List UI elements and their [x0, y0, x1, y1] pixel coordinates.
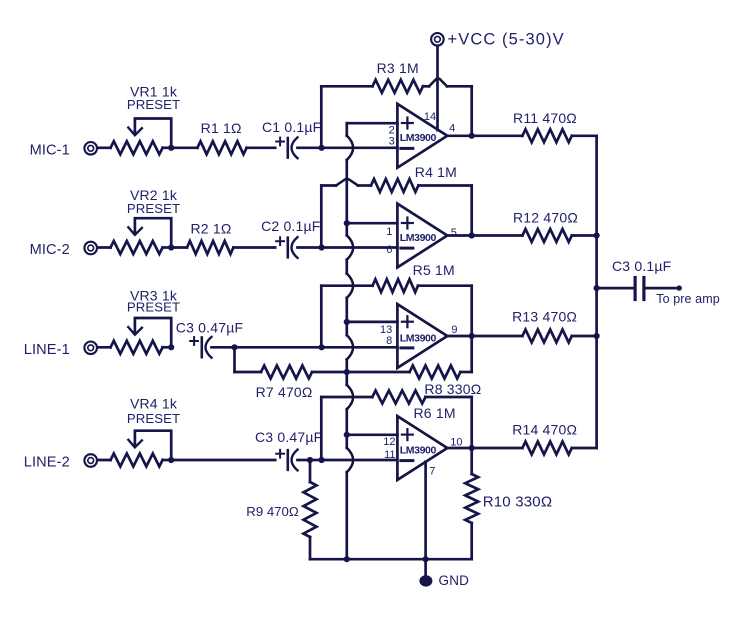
resistor R3 1M — [321, 60, 471, 146]
op-amp U1a LM3900 #1 — [389, 104, 456, 168]
wire — [597, 287, 636, 290]
svg-text:R13 470Ω: R13 470Ω — [512, 309, 577, 325]
connector J3 LINE-1 jack — [84, 342, 97, 355]
svg-text:C3 0.47µF: C3 0.47µF — [176, 319, 243, 335]
svg-text:R5 1M: R5 1M — [413, 262, 455, 278]
junction node R9 tap — [307, 457, 313, 463]
wire ground bus — [310, 558, 472, 561]
svg-text:To pre amp: To pre amp — [656, 292, 720, 306]
wire — [298, 146, 322, 149]
wire — [233, 246, 275, 249]
svg-text:PRESET: PRESET — [127, 411, 180, 426]
svg-text:12: 12 — [383, 436, 395, 448]
capacitor C3 0.47µF (LINE-2) — [255, 429, 322, 470]
potentiometer VR3 1k PRESET — [111, 288, 181, 354]
svg-text:C3 0.1µF: C3 0.1µF — [612, 258, 671, 274]
svg-text:R8 330Ω: R8 330Ω — [424, 381, 481, 397]
wire rail crossover hop — [347, 385, 353, 409]
svg-text:LINE-1: LINE-1 — [24, 342, 70, 358]
svg-text:R4 1M: R4 1M — [415, 164, 457, 180]
resistor R10 330Ω — [465, 448, 552, 559]
wire rail crossover hop — [347, 335, 353, 359]
connector J1 MIC-1 jack — [84, 142, 97, 155]
junction op3 output node — [469, 333, 475, 339]
wire — [322, 246, 398, 249]
capacitor C2 0.1µF — [261, 218, 320, 258]
junction pin7 ground — [423, 556, 429, 562]
svg-text:GND: GND — [439, 573, 470, 588]
junction bus output cap — [594, 285, 600, 291]
wire pin 7 to ground — [424, 462, 427, 560]
junction op4 output node — [469, 445, 475, 451]
svg-text:LM3900: LM3900 — [400, 332, 437, 344]
wire — [322, 346, 398, 349]
svg-text:LM3900: LM3900 — [400, 444, 437, 456]
resistor R13 470Ω — [512, 309, 597, 343]
svg-text:8: 8 — [386, 335, 392, 347]
op-amp U1b LM3900 #2 — [386, 204, 457, 268]
svg-text:C1 0.1µF: C1 0.1µF — [262, 119, 321, 135]
wire op4 output — [447, 447, 522, 450]
capacitor C1 0.1µF — [262, 119, 321, 158]
svg-text:11: 11 — [384, 449, 395, 461]
node To pre amp terminal — [656, 285, 720, 306]
junction bus R13 — [594, 333, 600, 339]
wire non-inverting bias rail — [345, 123, 348, 559]
wire — [298, 459, 311, 462]
svg-text:PRESET: PRESET — [127, 201, 180, 216]
wire — [322, 459, 398, 462]
svg-text:+VCC (5-30)V: +VCC (5-30)V — [448, 31, 565, 49]
resistor R1 1Ω — [171, 120, 246, 154]
junction VR4 wiper node — [168, 457, 174, 463]
wire pin 14 to VCC — [436, 46, 439, 130]
wire — [644, 287, 679, 290]
svg-text:R1 1Ω: R1 1Ω — [201, 120, 242, 136]
svg-text:MIC-1: MIC-1 — [30, 142, 70, 158]
resistor R9 470Ω — [246, 460, 316, 559]
svg-text:13: 13 — [380, 324, 392, 336]
svg-text:R14 470Ω: R14 470Ω — [512, 421, 577, 437]
junction op1 output node — [469, 133, 475, 139]
svg-text:R6 1M: R6 1M — [413, 405, 455, 421]
junction rail to ground bus — [344, 556, 350, 562]
junction feedback node ch3 — [319, 344, 325, 350]
resistor R12 470Ω — [513, 209, 597, 242]
wire rail crossover hop — [347, 274, 353, 298]
svg-text:R2 1Ω: R2 1Ω — [190, 220, 231, 236]
svg-text:R3 1M: R3 1M — [377, 60, 419, 76]
potentiometer VR4 1k PRESET — [111, 396, 181, 467]
resistor R11 470Ω — [513, 110, 597, 142]
svg-text:PRESET: PRESET — [127, 97, 180, 112]
wire op1 output — [447, 134, 522, 137]
connector J4 LINE-2 jack — [84, 454, 97, 467]
svg-text:VR4 1k: VR4 1k — [130, 396, 178, 412]
svg-text:R7 470Ω: R7 470Ω — [256, 384, 313, 400]
svg-text:6: 6 — [386, 244, 392, 256]
junction VR1 wiper node — [168, 145, 174, 151]
svg-text:LM3900: LM3900 — [400, 232, 437, 244]
wire — [97, 346, 110, 349]
junction op2 output node — [469, 232, 475, 238]
junction feedback node ch1 — [319, 145, 325, 151]
wire + input op3 — [347, 321, 398, 324]
capacitor C3 0.47µF (LINE-1) — [176, 319, 243, 357]
junction VR3 wiper node — [168, 344, 174, 350]
svg-text:9: 9 — [451, 324, 457, 336]
wire — [212, 346, 235, 349]
svg-text:3: 3 — [389, 135, 395, 147]
wire — [235, 346, 322, 349]
junction bus R12 — [594, 232, 600, 238]
potentiometer VR2 1k PRESET — [111, 187, 181, 254]
wire output summing bus — [595, 136, 598, 448]
wire — [298, 246, 322, 249]
svg-text:4: 4 — [449, 123, 455, 135]
svg-text:7: 7 — [429, 465, 435, 477]
junction rail to op2 + input — [344, 220, 350, 226]
connector J2 MIC-2 jack — [84, 242, 97, 255]
capacitor C3 0.1µF output — [612, 258, 671, 300]
potentiometer VR1 1k PRESET — [111, 84, 181, 155]
op-amp U1c LM3900 #3 — [380, 304, 457, 368]
wire + input op4 — [347, 433, 398, 436]
svg-text:R11 470Ω: R11 470Ω — [513, 110, 577, 126]
wire op2 output — [447, 234, 522, 237]
wire rail crossover hop — [347, 448, 353, 472]
wire op3 output — [447, 335, 522, 338]
svg-text:R9 470Ω: R9 470Ω — [246, 504, 299, 519]
wire — [97, 246, 110, 249]
svg-text:14: 14 — [424, 111, 436, 123]
svg-text:1: 1 — [386, 226, 392, 238]
wire rail crossover hop — [347, 136, 353, 160]
wire + input op2 — [347, 222, 398, 225]
svg-text:MIC-2: MIC-2 — [30, 242, 70, 258]
svg-text:C3 0.47µF: C3 0.47µF — [255, 429, 322, 445]
svg-text:LINE-2: LINE-2 — [24, 455, 70, 471]
power +VCC supply — [431, 31, 565, 49]
wire — [97, 459, 110, 462]
resistor R2 1Ω — [171, 220, 233, 254]
resistor R8 330Ω — [347, 338, 482, 397]
wire — [322, 146, 398, 149]
junction rail to R7/R8 row — [344, 369, 350, 375]
wire — [310, 459, 322, 462]
ground GND — [419, 559, 469, 588]
resistor R5 1M — [321, 262, 471, 345]
svg-text:5: 5 — [451, 227, 457, 239]
svg-text:R10 330Ω: R10 330Ω — [483, 493, 553, 510]
resistor R6 1M — [321, 391, 471, 459]
op-amp U1d LM3900 #4 — [383, 416, 462, 480]
junction node R7 tap — [231, 344, 237, 350]
wire — [247, 146, 276, 149]
svg-text:C2 0.1µF: C2 0.1µF — [261, 218, 320, 234]
svg-text:LM3900: LM3900 — [400, 132, 437, 144]
svg-text:R12 470Ω: R12 470Ω — [513, 209, 578, 225]
wire — [97, 146, 110, 149]
resistor R14 470Ω — [512, 421, 596, 454]
wire rail crossover hop — [347, 235, 353, 259]
svg-text:PRESET: PRESET — [127, 300, 180, 315]
wire + input op1 — [347, 122, 398, 125]
junction feedback node ch2 — [319, 244, 325, 250]
junction VR2 wiper node — [168, 244, 174, 250]
junction feedback node ch4 — [319, 457, 325, 463]
wire — [171, 459, 275, 462]
resistor R4 1M — [321, 164, 471, 245]
junction rail to op4 + input — [344, 432, 350, 438]
resistor R7 470Ω — [235, 347, 347, 400]
junction rail to op3 + input — [344, 319, 350, 325]
